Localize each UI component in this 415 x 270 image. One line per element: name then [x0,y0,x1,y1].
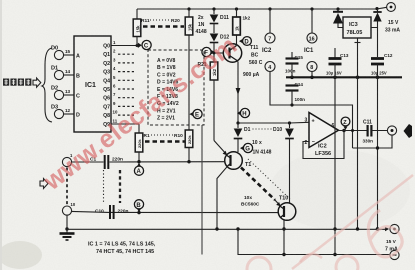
input brace arrow [40,179,48,189]
node H [237,108,250,117]
IC3 78L05 box [343,17,371,38]
node Z [341,117,350,130]
repetition dash R1-R10 [145,140,185,143]
capacitor C11 330n [363,120,388,144]
IC1 74LS145 box [74,36,111,132]
capacitor C10 [95,205,129,219]
IC1 pin 8 [307,62,317,78]
repetition dashes C1-C10 [104,170,121,203]
diode D11 [210,9,229,33]
resistor R1 220k [135,124,143,162]
label R11...R20 [141,18,180,24]
label 10x 1N4148 [252,140,272,156]
control input chinese label [3,79,31,86]
diode D1 [234,123,243,152]
resistor R12 1k2 [233,9,251,44]
IC2 pin 7 [265,9,275,43]
scan noise [0,0,1,1]
node F [202,47,215,56]
op-amp IC2 LF356 [305,113,339,158]
repetition dash R11-R20 [143,25,184,28]
node A [134,163,143,176]
diode D10 [285,123,294,204]
capacitor C14 100n [286,82,306,107]
repetition dots T1-T10 [248,159,290,199]
node B [134,200,143,213]
terminal D1 [51,66,74,80]
output terminal + [390,224,399,233]
IC1 type note [88,242,156,256]
node D [239,37,251,46]
input terminal 10 [62,202,75,215]
wire upper signal line [72,160,225,163]
transistor T11 BC560C [223,44,262,66]
vertical C13 column to bottom rail [333,77,336,256]
transistor T1 [225,152,252,170]
diode anode rail [236,121,309,124]
T10 emitter stub [274,199,281,206]
repetition dash T1-T10 [241,168,275,201]
IC1 output labels Q0-Q9 [103,44,110,128]
terminal return stub [351,129,392,150]
label 2x 1N4148 [196,15,207,35]
top supply rail [137,7,387,11]
label 10x BC560C [241,195,260,208]
wire Q9 to R1 [111,123,139,125]
T10 collector wire [282,220,285,256]
cable dashed link [66,168,68,205]
diode D12 [210,34,230,63]
bottom rail 2 [236,227,390,254]
terminal D3 [51,105,74,119]
diode D13 [333,9,343,28]
resistor R21 [198,62,218,141]
input terminal 1 [62,153,73,167]
label R1...R10 [144,133,184,139]
wire lower signal line [71,211,278,214]
node E [189,109,202,118]
capacitor C1 [90,155,123,169]
resistor R11 15k [133,9,141,46]
output wire [339,130,367,132]
long vertical from legend box [201,125,203,255]
mid supply rail [286,76,402,80]
output spec [385,239,398,253]
legend dashed box [148,50,204,125]
IC1 output pin numbers [113,40,118,123]
T1 collector wire [217,167,227,229]
legend voltages [157,58,179,122]
ground [60,234,75,241]
IC3 ground pin long wire [355,38,361,229]
capacitor C15 100n [285,52,303,77]
output terminal AC [387,126,396,135]
terminal D2 [51,86,74,100]
wire Q0 to node C [111,44,139,47]
capacitor C13 10u [326,48,349,77]
resistor R10 220k [185,130,193,162]
node C [138,40,151,49]
output flag [404,124,413,138]
label D1...D10 [244,127,282,133]
T11 collector wire with 900uA arrow [236,62,260,124]
input arrow glyph [33,78,41,87]
brace for D0-D3 [42,48,52,122]
IC1 pin 16 [307,9,317,43]
wire output return vertical dot [376,227,379,230]
transistor T10 [278,196,296,221]
op-amp feedback loop [303,129,346,159]
node G [240,143,253,152]
wire T11 base [214,52,224,54]
bottom rail 1 [67,227,389,232]
ground wire [65,215,68,233]
watermark pale stamps [247,175,413,270]
IC1 dashed output stubs [118,54,134,115]
+15V supply terminal [385,3,400,34]
IC2 pin 4 [265,62,353,149]
T1 emitter wire [214,141,227,156]
terminal D0 [51,46,74,60]
capacitor C12 10u [371,53,393,229]
diode D14 [371,9,382,57]
resistor R20 15k [185,9,193,130]
output terminal - [390,250,399,259]
